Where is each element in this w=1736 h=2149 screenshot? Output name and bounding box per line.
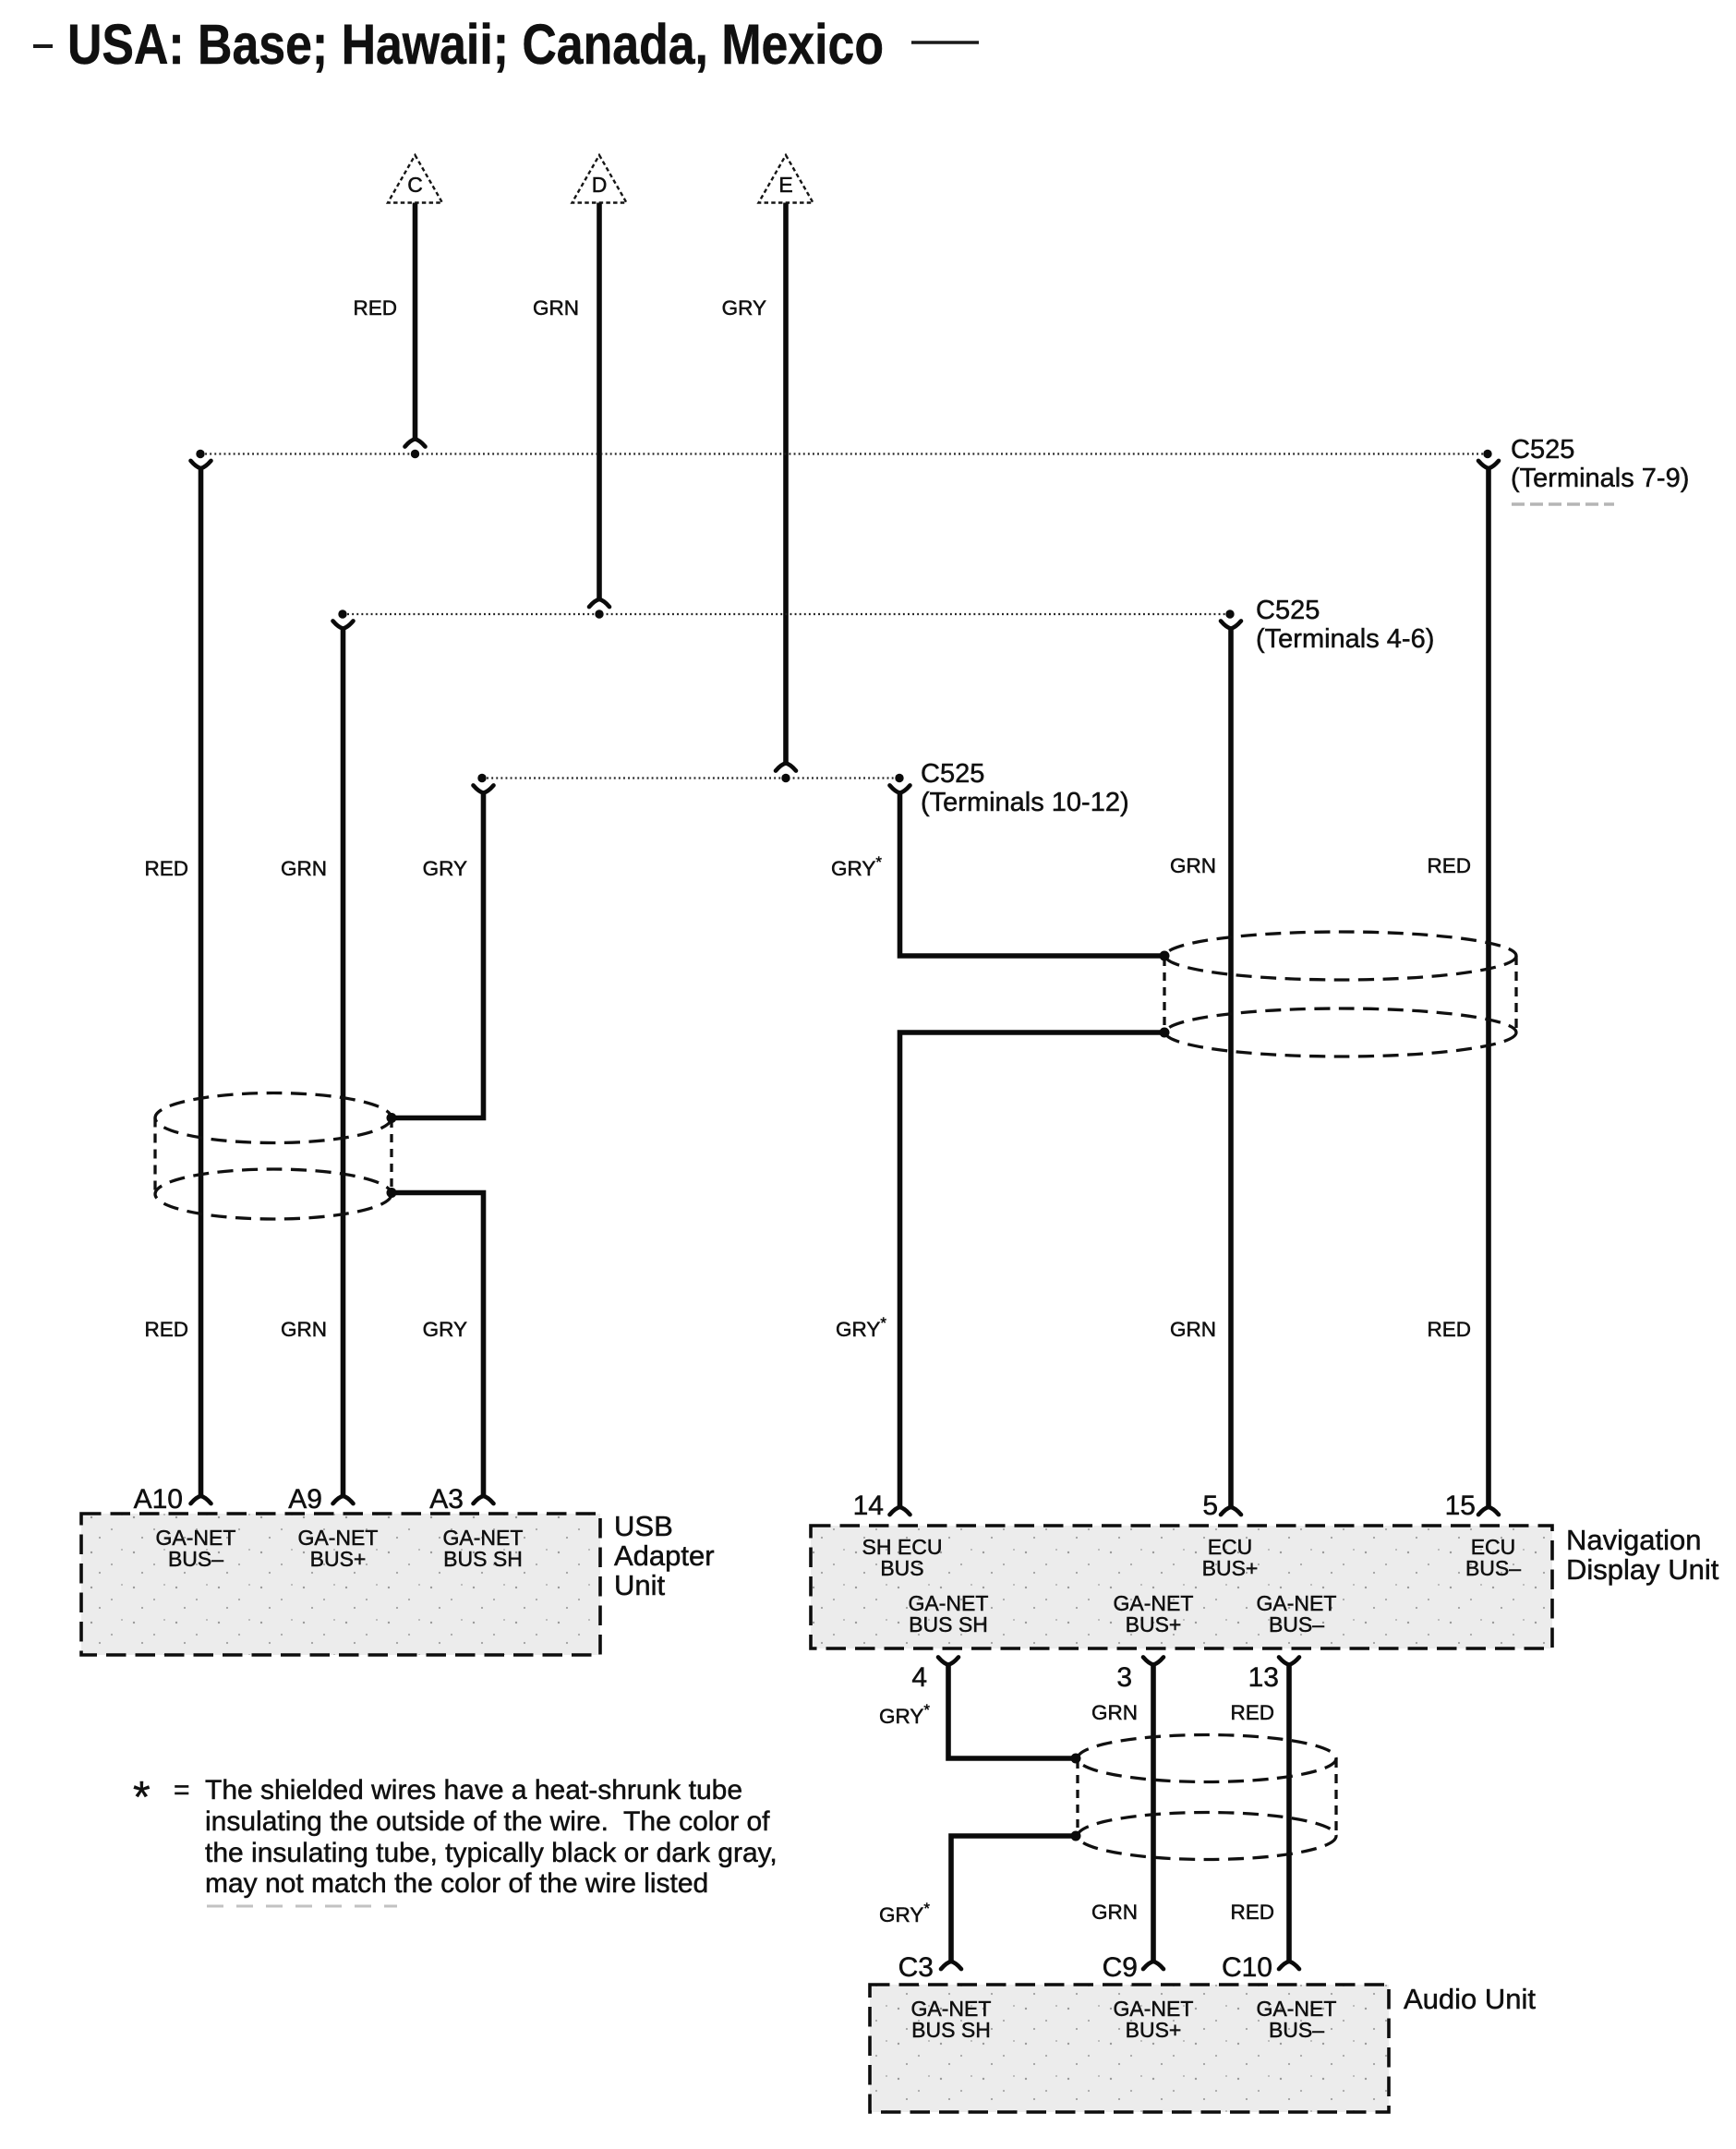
shield junction dot lower audio cylinder	[1071, 1831, 1081, 1841]
fork at USB A9	[333, 1496, 354, 1503]
connector cup below line1 right (RED wire)	[1478, 461, 1499, 468]
fork below Nav pin 3	[1143, 1657, 1163, 1664]
svg-text:A9: A9	[288, 1484, 322, 1515]
faint scan smudge under footnote	[207, 1905, 397, 1908]
svg-text:C9: C9	[1103, 1952, 1138, 1983]
connector cup below line1 left (RED wire)	[191, 461, 211, 468]
svg-text:GRY: GRY	[722, 296, 766, 320]
svg-text:A10: A10	[134, 1484, 183, 1515]
wire RED to Nav pin 15	[1486, 467, 1491, 1507]
svg-text:C10: C10	[1222, 1952, 1272, 1983]
svg-text:3: 3	[1116, 1662, 1132, 1693]
fork below Nav pin 13	[1279, 1657, 1299, 1664]
svg-text:BUS+: BUS+	[310, 1547, 367, 1571]
svg-text:The shielded wires have a heat: The shielded wires have a heat-shrunk tu…	[205, 1775, 742, 1805]
svg-text:(Terminals 4-6): (Terminals 4-6)	[1256, 624, 1434, 654]
svg-text:BUS+: BUS+	[1126, 2018, 1182, 2042]
fork at Nav pin 14	[890, 1507, 910, 1515]
svg-text:A3: A3	[429, 1484, 464, 1515]
title dash right	[911, 41, 979, 44]
connector fork at end of C wire	[405, 439, 426, 446]
svg-text:RED: RED	[144, 1318, 188, 1341]
svg-text:C525: C525	[1511, 435, 1574, 465]
fork at USB A10	[191, 1496, 211, 1503]
svg-text:C525: C525	[921, 759, 984, 789]
fork below Nav pin 4	[938, 1657, 958, 1664]
junction dot left end line3	[477, 774, 486, 782]
connector triangle C	[388, 155, 442, 203]
wire GRY down to shield	[392, 792, 484, 1118]
connector cup below line3 left (GRY wire)	[474, 785, 494, 792]
wire GRY from shield to USB A3	[392, 1193, 484, 1496]
shield junction dot upper right cylinder	[1160, 951, 1170, 961]
junction dot D wire line2	[595, 610, 603, 618]
svg-text:GRN: GRN	[1170, 1318, 1216, 1341]
svg-text:the insulating tube, typically: the insulating tube, typically black or …	[205, 1838, 778, 1868]
svg-text:*: *	[133, 1773, 151, 1822]
svg-text:D: D	[592, 173, 608, 197]
svg-text:BUS SH: BUS SH	[909, 1612, 988, 1636]
svg-text:BUS+: BUS+	[1202, 1556, 1259, 1580]
svg-text:GRY*: GRY*	[836, 1314, 886, 1342]
shield cylinder audio harness	[1078, 1735, 1336, 1860]
shield junction dot lower left cylinder	[387, 1188, 397, 1198]
svg-text:Display Unit: Display Unit	[1566, 1553, 1719, 1586]
junction dot C wire line1	[411, 450, 419, 458]
junction dot right end line1	[1483, 450, 1491, 458]
dotted connector line C525 terminals 4-6	[343, 613, 1230, 615]
connector fork at end of E wire	[776, 763, 796, 770]
wire RED from Nav pin 13 to audio C10	[1286, 1664, 1292, 1962]
faint scan underline	[1512, 502, 1614, 506]
svg-text:15: 15	[1445, 1491, 1476, 1521]
fork at USB A3	[474, 1496, 494, 1503]
svg-text:C3: C3	[898, 1952, 934, 1983]
shield junction dot lower right cylinder	[1160, 1028, 1170, 1038]
shield junction dot upper left cylinder	[387, 1113, 397, 1123]
wire RED to USB A10	[199, 467, 204, 1496]
svg-text:RED: RED	[144, 857, 188, 880]
connector triangle D	[573, 155, 627, 203]
wire from triangle C (RED)	[413, 203, 418, 440]
svg-text:BUS–: BUS–	[1465, 1556, 1521, 1580]
USB adapter unit box	[81, 1514, 600, 1655]
junction dot left end line1	[196, 450, 204, 458]
svg-text:(Terminals 10-12): (Terminals 10-12)	[921, 788, 1129, 817]
svg-text:RED: RED	[353, 296, 397, 320]
svg-text:USA: Base; Hawaii; Canada, Mex: USA: Base; Hawaii; Canada, Mexico	[67, 13, 884, 76]
svg-text:=: =	[174, 1775, 190, 1805]
wire GRY* from right shield to Nav pin 14	[900, 1032, 1165, 1507]
svg-text:C525: C525	[1256, 596, 1320, 625]
svg-text:BUS–: BUS–	[168, 1547, 223, 1571]
connector triangle E	[759, 155, 814, 203]
svg-text:GRY: GRY	[423, 857, 467, 880]
connector cup below line2 right (GRN wire)	[1221, 621, 1241, 628]
shield cylinder right (navigation harness)	[1164, 932, 1516, 1056]
svg-text:(Terminals 7-9): (Terminals 7-9)	[1511, 464, 1689, 493]
svg-text:GRY*: GRY*	[831, 853, 882, 881]
svg-text:may not match the color of the: may not match the color of the wire list…	[205, 1868, 708, 1899]
wire GRN from Nav pin 3 to audio C9	[1151, 1664, 1156, 1962]
svg-text:GRN: GRN	[1091, 1901, 1138, 1924]
svg-text:BUS: BUS	[880, 1556, 923, 1580]
junction dot right end line3	[895, 774, 903, 782]
svg-text:BUS SH: BUS SH	[443, 1547, 523, 1571]
shield junction dot upper audio cylinder	[1071, 1754, 1081, 1764]
fork at audio C3	[941, 1962, 961, 1969]
svg-text:BUS–: BUS–	[1269, 2018, 1324, 2042]
svg-text:GRN: GRN	[281, 857, 327, 880]
dotted connector line C525 terminals 10-12	[482, 777, 899, 779]
svg-text:5: 5	[1202, 1491, 1218, 1521]
svg-text:13: 13	[1248, 1662, 1279, 1693]
svg-text:E: E	[778, 173, 792, 197]
wire GRY* from Nav pin 4 to audio shield	[948, 1664, 1076, 1759]
svg-text:RED: RED	[1427, 854, 1471, 877]
dotted connector line C525 terminals 7-9	[200, 453, 1488, 454]
svg-text:C: C	[407, 173, 423, 197]
fork at Nav pin 5	[1221, 1507, 1241, 1515]
svg-text:4: 4	[911, 1662, 927, 1693]
svg-text:Navigation: Navigation	[1566, 1524, 1701, 1556]
svg-text:BUS–: BUS–	[1269, 1612, 1324, 1636]
svg-text:Audio Unit: Audio Unit	[1404, 1983, 1536, 2015]
title dash left	[33, 44, 53, 48]
wire GRN to USB A9	[341, 628, 346, 1496]
svg-text:GRN: GRN	[533, 296, 579, 320]
wire GRN to Nav pin 5	[1228, 628, 1234, 1507]
svg-text:GRN: GRN	[1170, 854, 1216, 877]
fork at audio C10	[1279, 1962, 1299, 1969]
svg-text:USB: USB	[614, 1510, 673, 1542]
junction dot E wire line3	[781, 774, 790, 782]
wire from triangle E (GRY)	[783, 203, 789, 764]
svg-text:GRY*: GRY*	[879, 1900, 930, 1927]
svg-text:GRN: GRN	[281, 1318, 327, 1341]
fork at Nav pin 15	[1478, 1507, 1499, 1515]
svg-text:insulating the outside of the: insulating the outside of the wire. The …	[205, 1806, 770, 1837]
svg-text:GRY*: GRY*	[879, 1701, 930, 1729]
junction dot right end line2	[1225, 610, 1234, 618]
connector fork at end of D wire	[589, 599, 609, 607]
navigation display unit box	[811, 1526, 1552, 1648]
wire from triangle D (GRN)	[597, 203, 602, 599]
svg-text:RED: RED	[1427, 1318, 1471, 1341]
junction dot left end line2	[338, 610, 346, 618]
fork at audio C9	[1143, 1962, 1163, 1969]
svg-text:BUS SH: BUS SH	[911, 2018, 991, 2042]
svg-text:RED: RED	[1230, 1901, 1274, 1924]
wire GRY* from audio shield to C3	[951, 1836, 1076, 1962]
connector cup below line3 right (GRY* wire)	[890, 785, 910, 792]
shield cylinder left (USB harness)	[155, 1093, 392, 1220]
svg-text:GRY: GRY	[423, 1318, 467, 1341]
svg-text:RED: RED	[1230, 1701, 1274, 1724]
svg-text:14: 14	[853, 1491, 884, 1521]
svg-text:GRN: GRN	[1091, 1701, 1138, 1724]
svg-text:Unit: Unit	[614, 1569, 666, 1601]
wire GRY* down to right shield	[900, 792, 1165, 957]
svg-text:Adapter: Adapter	[614, 1539, 715, 1572]
audio unit box	[870, 1985, 1389, 2112]
svg-text:BUS+: BUS+	[1126, 1612, 1182, 1636]
connector cup below line2 left (GRN wire)	[333, 621, 354, 628]
